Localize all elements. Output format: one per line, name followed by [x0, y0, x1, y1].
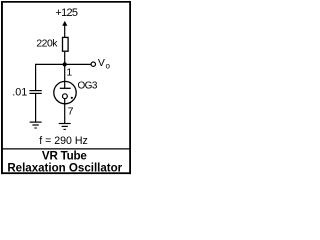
svg-text:7: 7 — [68, 106, 74, 118]
svg-text:V: V — [98, 57, 105, 69]
svg-text:VR Tube: VR Tube — [42, 150, 88, 163]
svg-text:Relaxation Oscillator: Relaxation Oscillator — [7, 163, 122, 175]
svg-text:f = 290 Hz: f = 290 Hz — [39, 135, 88, 147]
svg-text:1: 1 — [66, 67, 72, 79]
svg-text:.01: .01 — [12, 86, 27, 98]
svg-text:+125: +125 — [55, 7, 77, 19]
svg-text:o: o — [106, 62, 111, 71]
svg-text:OG3: OG3 — [78, 80, 98, 91]
svg-text:220k: 220k — [36, 39, 58, 50]
